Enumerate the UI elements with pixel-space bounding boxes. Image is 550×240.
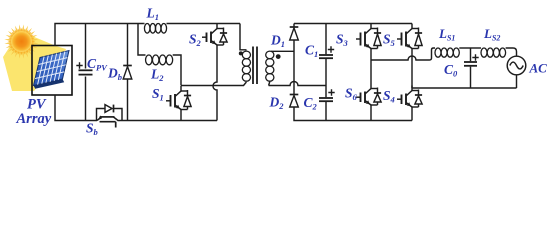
transformer core [253,47,257,85]
wire: PV bottom to rail [55,95,97,121]
diode D2 [290,95,299,108]
transistor S3 [356,24,381,49]
svg-text:Array: Array [16,111,52,127]
wire: secondary bottom to C1/C2 midpoint (hop over D leg) [269,82,326,86]
primary polarity dot [239,51,243,55]
diode Db [127,24,129,121]
transistor S2 [202,24,227,46]
transistor S5 [397,24,422,49]
PV solar panel [34,51,70,89]
wire: left-leg midpoint to LS1 (hop over right leg) [371,48,435,60]
wire: top rail PV+ [55,24,144,46]
transformer secondary winding [266,51,294,85]
sun light beam [3,31,66,91]
AC source [507,56,526,88]
switch Sb (on bottom rail, with antiparallel diode) [97,105,126,128]
capacitor C1 [325,24,327,86]
diode D1 [293,24,295,95]
inductor L2 [146,55,181,86]
capacitor C0 [470,48,472,88]
wire: left leg S3-S6 [370,49,372,84]
secondary polarity dot [276,54,281,59]
inductor LS1 [435,48,471,57]
capacitor CPV [85,24,87,121]
transistor S4 [397,86,422,121]
transformer primary winding [240,24,250,82]
transistor S6 [356,84,381,121]
wire: top rail L1 to transformer [171,23,240,25]
PV array box [32,46,72,96]
wire: right-leg midpoint return to AC [412,87,517,89]
wire: bottom rail Sb to S2 leg [125,120,217,122]
wire: right leg S5-S4 [411,49,413,89]
inductor L1 [144,24,171,34]
wire: L2 left riser [138,24,146,56]
sun [4,24,38,58]
wire: node A (L2/S1) to transformer primary bottom [181,82,246,86]
capacitor C2 [325,86,327,121]
wire: S2 emitter down with hop over node wire [213,45,217,121]
inductor LS2 [471,47,482,49]
transistor S1 [166,86,191,121]
wire: secondary top rail [294,23,412,25]
svg-text:AC: AC [529,61,548,76]
